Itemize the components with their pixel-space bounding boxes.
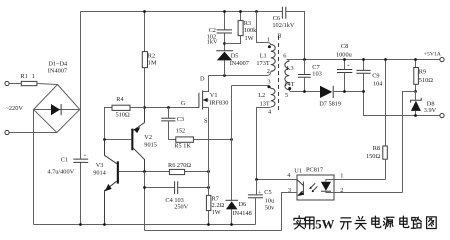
wire L2 pin4 [257, 107, 271, 180]
wire V1 drain top [209, 75, 268, 77]
terminal 0V output [440, 113, 444, 117]
diode D6 [226, 201, 238, 209]
resistor R4 lead left [105, 108, 113, 140]
diode D5 [217, 52, 232, 61]
node R7 rail [207, 223, 210, 226]
capacitor C8 lead top [344, 60, 346, 70]
node R2 top rail [143, 10, 146, 13]
resistor R7 lead bottom [208, 211, 210, 225]
node L1 pin1 rail [255, 10, 258, 13]
terminal AC input bottom [5, 130, 9, 134]
svg-text:IRF830: IRF830 [209, 99, 228, 106]
svg-text:4: 4 [268, 108, 272, 115]
node R3 top rail [239, 10, 242, 13]
capacitor C1 plates [73, 159, 88, 162]
svg-text:102/1kV: 102/1kV [272, 22, 294, 29]
node D5 R3 [223, 42, 226, 45]
svg-text:IN4148: IN4148 [233, 210, 252, 217]
resistor R4 lead right [130, 107, 145, 109]
resistor R2 lead bottom [144, 68, 146, 108]
node C9 bottom [362, 90, 365, 93]
svg-text:+: + [347, 63, 350, 69]
transistor V2 base wire [105, 139, 132, 141]
diode D5 cathode bar [216, 50, 233, 52]
svg-text:L2: L2 [258, 92, 265, 99]
capacitor C9 lead bottom [363, 73, 365, 91]
node R6 source [207, 170, 210, 173]
diode D8 lead top [415, 92, 417, 101]
mosfet V1 drain stub [203, 76, 209, 92]
resistor R9 lead bottom [415, 84, 417, 91]
node C1 bottom rail [79, 223, 82, 226]
svg-text:103: 103 [312, 70, 321, 77]
node C4 right [207, 186, 210, 189]
diode D8 [411, 101, 421, 111]
capacitor C7 plates [298, 75, 311, 78]
title char shi [294, 216, 305, 229]
capacitor C5 lead bottom [255, 198, 257, 225]
svg-text:+: + [83, 153, 86, 159]
svg-text:2: 2 [267, 68, 270, 75]
diode D8 anode lead [415, 111, 417, 116]
resistor R1 [21, 81, 37, 85]
node C2 top rail [223, 10, 226, 13]
wire V1 source down [208, 108, 210, 196]
node L2 polarity dot [267, 85, 270, 88]
transistor V2 bar [131, 129, 133, 151]
resistor R5 lead right [193, 139, 231, 141]
resistor R3 lead bottom [225, 36, 241, 44]
svg-text:152: 152 [176, 127, 185, 134]
svg-text:IN4007: IN4007 [230, 60, 249, 67]
phototransistor collector [297, 180, 303, 186]
wire bottom rail [34, 224, 256, 226]
svg-text:3: 3 [288, 187, 291, 194]
svg-text:10u: 10u [265, 198, 275, 205]
svg-text:510Ω: 510Ω [116, 112, 130, 119]
svg-text:L1: L1 [260, 52, 267, 59]
wire primary top rail [81, 11, 283, 13]
transistor V3 emitter arrow [105, 184, 112, 191]
capacitor C5 lead top [256, 180, 258, 195]
svg-text:1000u: 1000u [336, 51, 353, 58]
capacitor C7 lead bottom [304, 77, 306, 91]
svg-text:1: 1 [32, 73, 35, 80]
transistor V2 collector [133, 148, 144, 171]
svg-text:D5: D5 [231, 52, 239, 59]
mosfet V1 body arrow [203, 98, 208, 102]
wire L3 pin5 [289, 90, 320, 92]
svg-text:R3: R3 [244, 20, 251, 27]
title char tu [427, 217, 437, 229]
svg-text:1: 1 [267, 37, 270, 44]
svg-text:PC817: PC817 [306, 167, 323, 174]
mosfet V1 source stub [203, 107, 209, 109]
resistor R7 [206, 195, 211, 210]
wire R8 top [385, 60, 387, 147]
node L1 polarity dot [268, 45, 271, 48]
svg-text:L3: L3 [287, 65, 294, 72]
svg-text:150Ω: 150Ω [366, 153, 380, 160]
diode D7 cathode bar [332, 86, 334, 98]
svg-text:V2: V2 [144, 134, 152, 141]
resistor R8 lead bottom [385, 159, 387, 179]
capacitor C2 lead top [224, 12, 226, 30]
wire U1 pin1 [334, 179, 386, 181]
wire left HV rail lower [80, 110, 82, 225]
wire left HV rail upper [80, 12, 82, 110]
svg-text:V1: V1 [210, 92, 218, 99]
svg-text:5: 5 [285, 92, 288, 99]
title char dian2 [400, 216, 409, 227]
svg-text:13T: 13T [260, 100, 270, 107]
svg-text:R6 270Ω: R6 270Ω [168, 162, 191, 169]
opto LED anode lead [326, 180, 334, 182]
svg-text:1kV: 1kV [207, 39, 218, 46]
wire V2 collector down [144, 172, 146, 231]
svg-text:173T: 173T [256, 60, 269, 67]
svg-text:G: G [181, 100, 186, 107]
svg-text:2: 2 [340, 187, 343, 194]
wire gate node [145, 107, 199, 109]
svg-text:B: B [277, 33, 281, 40]
transformer winding L1 [271, 45, 275, 72]
node U1 pin4 C5 [255, 178, 258, 181]
svg-text:5W: 5W [315, 218, 334, 232]
resistor R3 lead top [240, 12, 242, 21]
resistor R9 [414, 68, 419, 85]
phototransistor emitter [298, 191, 304, 196]
capacitor C3 lead top [168, 108, 170, 119]
svg-text:R1: R1 [20, 73, 27, 80]
svg-text:250V: 250V [174, 203, 188, 210]
mosfet V1 body stub [203, 99, 209, 101]
wire secondary 5V rail [287, 59, 440, 61]
svg-text:D: D [200, 75, 205, 82]
optocoupler U1 box [297, 175, 334, 200]
resistor R8 [383, 146, 388, 159]
bridge rectifier D1-D4 diamond [34, 85, 80, 133]
wire feedback jog [403, 92, 416, 193]
mosfet V1 gate bar [198, 93, 200, 108]
svg-text:104: 104 [373, 80, 383, 87]
wire L3 pin6 [287, 60, 290, 62]
wire terminal2 to bridge [9, 132, 57, 134]
svg-text:1W: 1W [245, 35, 254, 42]
node R5 to L2 line [230, 138, 233, 141]
node C8 rail [343, 58, 346, 61]
diode D6 anode lead [231, 209, 233, 224]
capacitor C8 plates [337, 70, 352, 73]
svg-text:C1: C1 [61, 157, 68, 164]
transistor V3 bar [117, 161, 119, 183]
transistor V2 emitter [133, 108, 144, 131]
capacitor C4 wire right [178, 187, 209, 189]
svg-text:C9: C9 [372, 73, 379, 80]
svg-text:1W: 1W [212, 209, 221, 216]
svg-text:C5: C5 [264, 189, 271, 196]
node C4 left [143, 186, 146, 189]
wire terminal1 to R1 [9, 83, 21, 85]
wire C6 to secondary [286, 12, 305, 60]
opto LED cathode lead [326, 191, 334, 192]
svg-text:1: 1 [340, 172, 343, 179]
svg-text:510Ω: 510Ω [419, 77, 433, 84]
phototransistor emitter arrow [298, 191, 304, 196]
resistor R2 [142, 52, 147, 68]
capacitor C8 lead bottom [344, 73, 346, 92]
resistor R5 [176, 137, 194, 142]
svg-text:S: S [204, 117, 208, 124]
title char guan [355, 217, 366, 230]
node C3 tap [167, 106, 170, 109]
transistor V3 emitter [105, 181, 117, 224]
node drain D5 [223, 74, 226, 77]
wire V3 base R6 [119, 171, 209, 173]
capacitor C3 lead bottom [169, 121, 176, 140]
svg-text:9014: 9014 [93, 170, 106, 177]
opto light arrows [310, 183, 318, 192]
resistor R2 lead top [144, 12, 146, 52]
capacitor C9 plates [356, 70, 370, 73]
node V2 base junction [103, 138, 106, 141]
capacitor C6 plates [282, 7, 285, 19]
transistor V2 emitter arrow [134, 127, 141, 133]
title char kai [340, 218, 351, 229]
wire U1 pin4 [257, 179, 298, 181]
title char dian1 [372, 216, 381, 227]
diode D6 cathode bar [225, 199, 238, 201]
mosfet V1 channel bar [202, 90, 204, 109]
node R8 rail [384, 58, 387, 61]
diode D5 anode lead [224, 60, 226, 75]
svg-text:3.9V: 3.9V [424, 107, 437, 114]
capacitor C9 lead top [363, 60, 365, 71]
svg-text:6: 6 [283, 52, 286, 59]
svg-text:+: + [258, 190, 261, 196]
resistor R9 lead top [415, 60, 417, 68]
diode D7 [320, 86, 332, 98]
terminal AC input top [5, 81, 9, 85]
svg-text:1M: 1M [148, 59, 157, 66]
title char lu [411, 217, 421, 228]
opto LED cathode bar [321, 190, 331, 192]
node R9 rail [414, 58, 417, 61]
node C7 bottom [303, 90, 306, 93]
svg-text:C8: C8 [341, 43, 348, 50]
svg-text:D6: D6 [239, 201, 247, 208]
node C9 rail [362, 58, 365, 61]
svg-text:+5V1A: +5V1A [424, 52, 442, 58]
wire bridge left to bottom rail [33, 110, 35, 225]
svg-text:V3: V3 [96, 162, 104, 169]
capacitor C2 lead bottom [224, 33, 226, 51]
transformer winding L3 [285, 61, 289, 89]
transformer core dashed [278, 36, 280, 113]
svg-text:R8: R8 [373, 145, 380, 152]
transistor V3 collector [105, 140, 117, 164]
svg-text:~220V: ~220V [6, 105, 24, 112]
wire optocoupler return bottom [145, 230, 282, 232]
svg-text:R9: R9 [419, 69, 426, 76]
wire D7 to output [334, 92, 440, 116]
opto LED [321, 182, 331, 191]
capacitor C4 wire left [145, 187, 175, 189]
node D8 output rail [414, 114, 417, 117]
svg-text:9015: 9015 [144, 141, 157, 148]
node V2 collector R6 [143, 170, 146, 173]
wire U1 pin2 [334, 192, 403, 194]
terminal +5V output [440, 57, 444, 61]
phototransistor bar [302, 182, 304, 196]
node D6 rail [230, 223, 233, 226]
capacitor C5 plates [248, 195, 263, 198]
wire L2 pin3 vertical [231, 86, 233, 201]
wire bridge inner [34, 109, 80, 111]
svg-text:D1~D4: D1~D4 [48, 61, 68, 68]
svg-text:U1: U1 [294, 167, 302, 174]
svg-text:4.7u/400V: 4.7u/400V [47, 169, 74, 176]
node V3 emitter rail [103, 223, 106, 226]
node C6 rail [303, 58, 306, 61]
capacitor C7 lead top [304, 60, 306, 75]
wire L1 pin2 [267, 71, 271, 75]
opto light arrowheads [310, 187, 315, 193]
node L3 polarity dot [288, 87, 291, 90]
svg-text:R5 1K: R5 1K [174, 142, 191, 149]
resistor R6 [169, 169, 184, 174]
svg-text:3: 3 [267, 78, 270, 85]
svg-text:D7 5819: D7 5819 [319, 101, 341, 108]
svg-text:R4: R4 [116, 96, 124, 103]
diode D1-D4 symbol [51, 104, 60, 115]
svg-text:IN4007: IN4007 [48, 68, 67, 75]
resistor R4 [112, 105, 130, 110]
diode D8 zener bar [411, 98, 422, 103]
capacitor C2 plates [217, 30, 232, 33]
node G junction [143, 106, 146, 109]
wire L2 pin3 [232, 86, 271, 89]
svg-text:C3: C3 [177, 116, 184, 123]
title char yuan [383, 217, 394, 228]
node R9 D8 [414, 90, 417, 93]
svg-text:4: 4 [287, 172, 291, 179]
wire L1 pin1 [257, 12, 271, 46]
node C8 bottom [343, 90, 346, 93]
wire U1 pin3 [282, 193, 298, 231]
wire R1 to bridge [37, 84, 58, 85]
resistor R3 [238, 21, 243, 36]
capacitor C4 plates [175, 181, 178, 194]
transformer winding L2 [271, 88, 275, 107]
svg-text:100k: 100k [244, 27, 257, 34]
svg-text:50v: 50v [265, 205, 275, 212]
diode D1-D4 cathode bar [60, 104, 62, 115]
capacitor C3 plates [161, 118, 175, 121]
svg-text:C6: C6 [273, 15, 280, 22]
title char yong [305, 217, 314, 229]
